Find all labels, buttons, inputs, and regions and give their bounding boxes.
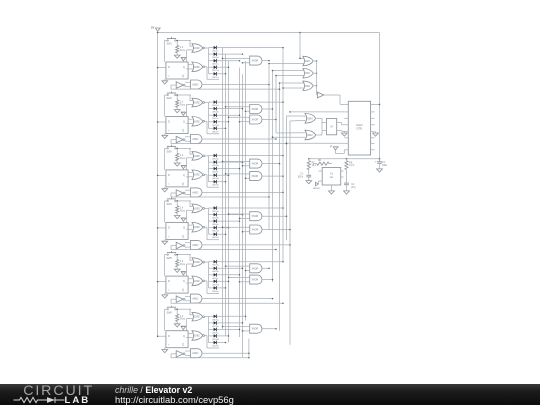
wire xyxy=(186,173,189,177)
svg-text:AND2: AND2 xyxy=(192,84,199,87)
wire xyxy=(205,227,219,240)
LED D1e xyxy=(209,72,220,79)
wire xyxy=(282,87,303,89)
diode D4r xyxy=(185,224,188,230)
switch SW5 xyxy=(165,251,192,260)
wire xyxy=(205,48,209,74)
wire xyxy=(187,201,191,223)
wire bus C2 xyxy=(272,71,274,283)
wire bus C1 xyxy=(268,64,270,230)
svg-text:Q̅: Q̅ xyxy=(182,235,184,238)
wire xyxy=(171,196,270,198)
svg-text:NOR2: NOR2 xyxy=(193,48,200,50)
LED D4a xyxy=(209,206,220,213)
inverter U1d xyxy=(171,82,185,89)
svg-text:C3: C3 xyxy=(382,162,386,164)
svg-text:LED6e: LED6e xyxy=(212,346,219,348)
or-gate U3c NOR2 xyxy=(190,170,205,180)
wire xyxy=(220,53,244,55)
inverter U2d xyxy=(171,136,185,143)
svg-text:100 n: 100 n xyxy=(297,176,303,178)
node RST3 flag xyxy=(181,165,186,170)
LED D2e xyxy=(209,127,220,134)
xnor-gate XNOR M4a xyxy=(247,212,262,221)
svg-text:LED3a: LED3a xyxy=(212,159,219,161)
wire xyxy=(186,65,189,69)
ground xyxy=(174,161,180,167)
node RST5 flag xyxy=(181,272,186,277)
wire xyxy=(220,207,284,209)
svg-text:AND2: AND2 xyxy=(192,352,199,355)
svg-text:10 k: 10 k xyxy=(312,165,317,167)
wire xyxy=(187,41,191,63)
and-gate U6e AND2 xyxy=(188,349,202,358)
or-gate U3a NOR2 xyxy=(190,152,205,161)
svg-text:D: D xyxy=(168,174,170,177)
wire xyxy=(202,138,277,140)
or-gate U4a NOR2 xyxy=(190,204,205,213)
wire xyxy=(157,121,166,123)
svg-text:LED3e: LED3e xyxy=(212,185,219,187)
svg-text:LED6a: LED6a xyxy=(212,319,219,321)
capacitor C3 100u xyxy=(375,159,388,167)
wire osc rail xyxy=(308,158,380,160)
wire xyxy=(220,108,244,110)
xnor-gate XNOR M4b xyxy=(247,225,262,234)
or-gate O1 OR3 xyxy=(303,56,313,65)
wire xyxy=(222,58,247,60)
flip-flop U2b DFF xyxy=(166,117,188,134)
svg-text:XNOR: XNOR xyxy=(252,268,259,270)
footer title xyxy=(115,385,192,395)
wire xyxy=(187,95,191,117)
LED D3a xyxy=(209,154,220,161)
svg-text:SW2: SW2 xyxy=(167,97,173,100)
wire xyxy=(287,115,303,117)
LED D5c xyxy=(209,273,220,280)
flip-flop U6b DFF xyxy=(166,331,188,348)
svg-text:OR3: OR3 xyxy=(305,61,310,63)
wire xyxy=(205,316,209,342)
svg-text:Q: Q xyxy=(183,66,185,69)
ground xyxy=(162,79,168,84)
wire xyxy=(242,62,247,64)
LED D6c xyxy=(209,328,220,335)
wire bus B1 xyxy=(239,68,241,337)
logo resistor-diode squiggle xyxy=(11,394,71,405)
wire xyxy=(205,336,219,349)
or-gate U4c NOR2 xyxy=(190,222,205,232)
xor-gate X2 XOR2 xyxy=(302,130,316,140)
LED D1d xyxy=(209,66,220,73)
resistor R7 10k xyxy=(307,159,317,170)
svg-text:NOR2: NOR2 xyxy=(193,317,200,319)
xnor-gate XNOR M2a xyxy=(247,105,262,114)
wire xyxy=(279,82,304,84)
or-gate O3 OR3 xyxy=(303,81,313,90)
wire xyxy=(202,298,273,300)
switch SW6 xyxy=(165,306,192,315)
svg-text:LED1a: LED1a xyxy=(212,51,219,53)
svg-text:LED2c: LED2c xyxy=(212,118,219,120)
wire xyxy=(275,75,303,77)
resistor R6 2.2k xyxy=(313,160,332,165)
inverter U3d xyxy=(171,190,185,197)
node OSC flag xyxy=(331,144,345,153)
svg-text:LED5b: LED5b xyxy=(212,271,219,273)
node RESET xyxy=(313,181,321,190)
wire xyxy=(375,104,381,106)
svg-text:+: + xyxy=(375,159,377,163)
ground xyxy=(162,134,168,139)
svg-text:Q̅: Q̅ xyxy=(182,289,184,292)
ground xyxy=(174,322,180,328)
wire xyxy=(245,270,247,272)
ground xyxy=(329,185,335,194)
footer url xyxy=(115,394,234,405)
LED D2d xyxy=(209,120,220,127)
or-gate U2c NOR2 xyxy=(190,117,205,127)
and-gate U1e AND2 xyxy=(188,80,202,89)
xnor-gate XNOR M3a xyxy=(247,159,262,168)
wire xyxy=(185,137,188,141)
svg-text:22 p: 22 p xyxy=(351,187,356,189)
component X1 box xyxy=(319,168,344,186)
wire xyxy=(202,192,284,194)
LED D2a xyxy=(209,100,220,107)
svg-text:Q: Q xyxy=(183,227,185,230)
wire xyxy=(262,229,291,231)
wire xyxy=(239,121,247,123)
svg-text:Q̅: Q̅ xyxy=(182,183,184,186)
xnor-gate XNOR M3b xyxy=(247,172,262,181)
wire xyxy=(220,155,284,157)
wire xyxy=(202,84,270,86)
op-amp U10 controller IC xyxy=(344,101,374,155)
svg-text:SW1: SW1 xyxy=(167,43,173,46)
wire xyxy=(185,190,188,194)
svg-text:LED2b: LED2b xyxy=(212,112,219,114)
svg-text:LED6c: LED6c xyxy=(212,332,219,334)
svg-text:Q: Q xyxy=(183,174,185,177)
svg-text:NOR2: NOR2 xyxy=(193,227,200,229)
wire xyxy=(262,215,287,217)
svg-text:OR3: OR3 xyxy=(305,73,310,75)
node RST2 flag xyxy=(181,112,186,117)
svg-text:SW5: SW5 xyxy=(167,257,173,260)
wire xyxy=(187,148,191,170)
svg-text:D: D xyxy=(168,66,170,69)
svg-text:LED5a: LED5a xyxy=(212,265,219,267)
ground xyxy=(174,53,180,59)
wire xyxy=(205,102,209,128)
wire xyxy=(202,352,250,354)
svg-text:XNOR: XNOR xyxy=(252,329,259,331)
or-gate U1c NOR2 xyxy=(190,62,205,72)
xnor-gate XNOR M5a xyxy=(247,264,262,273)
wire xyxy=(220,114,241,116)
wire xyxy=(220,168,241,170)
LED D6d xyxy=(209,334,220,341)
svg-text:LED5d: LED5d xyxy=(212,284,219,286)
wire xyxy=(262,175,284,177)
wire bus B2 xyxy=(242,74,244,357)
svg-text:CTRL: CTRL xyxy=(356,127,363,130)
wire xyxy=(220,73,227,75)
wire xyxy=(316,118,322,135)
wire xyxy=(186,225,189,229)
wire xyxy=(262,108,273,110)
wire bus C3 xyxy=(275,76,277,134)
svg-text:XNOR: XNOR xyxy=(252,61,259,63)
svg-text:LED1d: LED1d xyxy=(212,70,219,72)
flip-flop U5b DFF xyxy=(166,276,188,293)
wire bus C6 xyxy=(286,116,288,240)
ground xyxy=(162,239,168,244)
wire xyxy=(205,175,219,188)
wire xyxy=(262,279,273,281)
svg-text:Q: Q xyxy=(183,121,185,124)
wire xyxy=(220,220,241,222)
wire xyxy=(185,243,188,247)
wire xyxy=(220,47,284,49)
ground xyxy=(344,185,350,194)
wire xyxy=(242,330,247,332)
and-gate U3e AND2 xyxy=(188,188,202,197)
wire bus A3 xyxy=(228,61,230,343)
wire xyxy=(157,67,166,69)
CircuitLab logo wordmark xyxy=(23,383,94,399)
LED D4d xyxy=(209,226,220,233)
LED D4b xyxy=(209,213,220,220)
wire xyxy=(164,309,166,331)
wire xyxy=(171,88,280,90)
svg-text:Q̅: Q̅ xyxy=(182,344,184,347)
wire xyxy=(220,66,230,68)
xnor-gate XNOR M1 xyxy=(247,56,262,65)
wire bus C4 xyxy=(279,83,281,331)
and-gate U5e AND2 xyxy=(188,294,202,303)
svg-text:5V: 5V xyxy=(151,26,154,30)
wire IC left feeds xyxy=(289,111,344,113)
svg-text:LED1e: LED1e xyxy=(212,77,219,79)
component M1 box xyxy=(327,119,337,135)
switch SW3 xyxy=(165,145,192,154)
svg-text:F: F xyxy=(331,144,333,148)
wire xyxy=(272,136,303,138)
wire xyxy=(164,201,166,223)
wire OR join xyxy=(316,61,318,95)
wire xyxy=(222,227,247,229)
svg-text:XOR2: XOR2 xyxy=(306,135,313,137)
wire xyxy=(220,335,230,337)
wire xyxy=(171,249,277,251)
wire xyxy=(225,106,247,108)
LED D5e xyxy=(209,286,220,293)
wire bus A1 xyxy=(222,48,224,330)
LED D3c xyxy=(209,167,220,174)
wire xyxy=(242,231,247,233)
wire 5V rail top xyxy=(158,32,380,34)
wire xyxy=(242,165,247,167)
wire xyxy=(228,277,247,279)
svg-text:OR3: OR3 xyxy=(305,86,310,88)
resistor R5 1k xyxy=(176,254,186,267)
diode D6r xyxy=(185,332,188,338)
LED D1a xyxy=(209,46,220,53)
wire xyxy=(337,130,345,133)
wire xyxy=(185,351,188,355)
wire xyxy=(164,95,166,117)
wire bus C7 xyxy=(289,121,291,345)
svg-text:SW3: SW3 xyxy=(167,151,173,154)
LED D3d xyxy=(209,173,220,180)
ground xyxy=(174,107,180,113)
ground xyxy=(174,213,180,219)
wire xyxy=(157,335,166,337)
node RST1 flag xyxy=(181,58,186,63)
or-gate U5a NOR2 xyxy=(190,258,205,267)
wire xyxy=(205,121,219,134)
svg-text:D: D xyxy=(168,227,170,230)
ground xyxy=(174,267,180,273)
svg-text:SW4: SW4 xyxy=(167,203,173,206)
LED D1c xyxy=(209,59,220,66)
svg-text:AND2: AND2 xyxy=(192,244,199,247)
svg-text:LED5c: LED5c xyxy=(212,278,219,280)
ground IC left xyxy=(341,131,347,136)
wire xyxy=(220,60,241,62)
svg-text:XNOR: XNOR xyxy=(252,109,259,111)
wire xyxy=(205,281,219,294)
xnor-gate XNOR M6 xyxy=(247,324,262,333)
inverter U6d xyxy=(171,351,185,358)
capacitor C1 100n xyxy=(297,170,311,179)
wire xyxy=(262,163,280,165)
wire xyxy=(324,95,344,104)
svg-text:NOR2: NOR2 xyxy=(193,103,200,105)
wire xyxy=(220,267,244,269)
svg-text:NOR2: NOR2 xyxy=(193,262,200,264)
svg-text:XNOR: XNOR xyxy=(252,164,259,166)
wire xyxy=(222,326,247,328)
svg-text:D: D xyxy=(168,280,170,283)
resistor R4 1k xyxy=(176,200,186,213)
inverter U4d xyxy=(171,242,185,249)
wire bus C5 xyxy=(282,48,284,262)
and-gate U4e AND2 xyxy=(188,240,202,249)
svg-text:LED1c: LED1c xyxy=(212,64,219,66)
wire xyxy=(220,128,227,130)
wire xyxy=(205,156,209,182)
svg-text:LED2a: LED2a xyxy=(212,105,219,107)
buffer B1 xyxy=(317,92,323,98)
svg-text:XNOR: XNOR xyxy=(252,230,259,232)
wire xyxy=(225,265,247,267)
wire xyxy=(220,287,227,289)
wire xyxy=(262,328,277,330)
svg-text:C2: C2 xyxy=(351,184,355,186)
ground xyxy=(306,177,312,184)
and-gate U2e AND2 xyxy=(188,135,202,144)
svg-text:100u: 100u xyxy=(382,165,388,167)
wire xyxy=(262,119,277,121)
svg-text:D: D xyxy=(168,335,170,338)
wire xyxy=(228,117,247,119)
svg-text:NOR2: NOR2 xyxy=(193,156,200,158)
LED D5a xyxy=(209,260,220,267)
wire xyxy=(164,148,166,170)
ground IC right xyxy=(373,131,379,136)
or-gate U2a NOR2 xyxy=(190,98,205,107)
svg-text:NOR2: NOR2 xyxy=(193,281,200,283)
wire xyxy=(157,227,166,229)
wire xyxy=(272,70,304,72)
LED D6a xyxy=(209,315,220,322)
xor-gate X1 XOR2 xyxy=(302,114,316,124)
flip-flop U3b DFF xyxy=(166,170,188,187)
node 5V flag xyxy=(151,26,160,34)
svg-text:R pu: R pu xyxy=(180,209,186,212)
svg-text:R pu: R pu xyxy=(180,157,186,160)
svg-text:LED6b: LED6b xyxy=(212,326,219,328)
svg-text:NOR2: NOR2 xyxy=(193,67,200,69)
wire xyxy=(225,173,247,175)
wire xyxy=(262,268,270,270)
node RST6 flag xyxy=(181,326,186,331)
diode D1r xyxy=(185,64,188,70)
wire xyxy=(314,85,317,87)
svg-text:LED6d: LED6d xyxy=(212,339,219,341)
or-gate U5c NOR2 xyxy=(190,276,205,286)
wire xyxy=(220,227,230,229)
wire xyxy=(314,72,317,74)
wire xyxy=(220,261,284,263)
LED D2b xyxy=(209,107,220,114)
svg-text:LED4d: LED4d xyxy=(212,231,219,233)
wire xyxy=(202,244,291,246)
wire xyxy=(220,214,244,216)
switch SW1 xyxy=(165,37,192,46)
wire xyxy=(220,181,227,183)
wire xyxy=(245,110,247,112)
svg-text:LED2d: LED2d xyxy=(212,125,219,127)
wire xyxy=(290,120,302,123)
or-gate O2 OR3 xyxy=(303,69,313,78)
wire bus A2 xyxy=(225,54,227,336)
wire xyxy=(245,178,247,180)
svg-text:AND2: AND2 xyxy=(192,138,199,141)
svg-text:LED3c: LED3c xyxy=(212,172,219,174)
wire right drop xyxy=(379,33,381,162)
svg-text:R6: R6 xyxy=(318,160,322,162)
node RST4 flag xyxy=(181,218,186,223)
or-gate U1a NOR2 xyxy=(190,44,205,53)
wire bus B3 xyxy=(245,61,247,321)
wire bottom return xyxy=(248,339,250,357)
ground xyxy=(162,293,168,298)
svg-text:M: M xyxy=(331,126,333,129)
wire IC left feeds2 xyxy=(286,143,345,145)
or-gate U6a NOR2 xyxy=(190,312,205,321)
svg-text:AND2: AND2 xyxy=(192,298,199,301)
wire xyxy=(171,143,287,145)
svg-text:AND2: AND2 xyxy=(192,191,199,194)
svg-text:LED4e: LED4e xyxy=(212,237,219,239)
wire xyxy=(185,82,188,86)
wire xyxy=(337,123,345,125)
wire xyxy=(220,161,244,163)
